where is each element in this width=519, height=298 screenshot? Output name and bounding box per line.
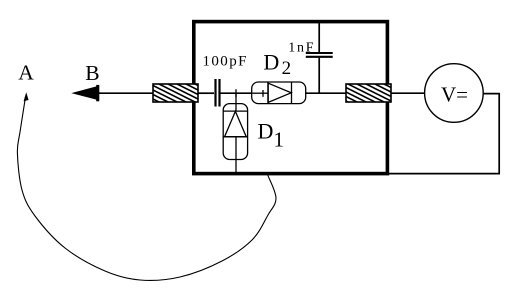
svg-text:B: B bbox=[85, 61, 99, 85]
diode D1 (vertical, packaged) bbox=[223, 104, 247, 160]
svg-text:A: A bbox=[18, 60, 34, 84]
svg-text:100pF: 100pF bbox=[203, 53, 248, 69]
svg-text:D: D bbox=[258, 119, 274, 144]
svg-text:1nF: 1nF bbox=[288, 40, 315, 55]
capacitor C1 100pF plates bbox=[216, 79, 220, 107]
leader arrowhead (points to A) bbox=[24, 92, 29, 101]
svg-text:1: 1 bbox=[274, 128, 285, 152]
capacitor C2 1nF plates bbox=[306, 53, 333, 57]
wire: D1 to box bottom bbox=[235, 137, 237, 173]
leader curve from A to box bbox=[17, 97, 276, 280]
junction tick node (D1 branch) bbox=[235, 89, 237, 97]
diode D2 (horizontal, packaged) bbox=[252, 82, 306, 104]
label D2 bbox=[263, 49, 291, 79]
voltage source V= circle bbox=[425, 64, 484, 123]
wire: 1nF branch up to box top bbox=[318, 23, 320, 93]
svg-text:V=: V= bbox=[441, 83, 468, 107]
wire: source return loop bbox=[389, 94, 499, 174]
feedthrough capacitor right (hatched) bbox=[346, 84, 391, 102]
feedthrough capacitor left (hatched) bbox=[153, 84, 198, 102]
polarity tick in D2 bbox=[262, 90, 264, 97]
svg-text:D: D bbox=[263, 49, 279, 74]
label D1 bbox=[258, 119, 285, 152]
wire: output lead to B bbox=[99, 92, 153, 94]
svg-text:2: 2 bbox=[282, 58, 292, 79]
wire: feedthrough to source bbox=[391, 92, 425, 94]
wire: C1 to D2 bbox=[220, 92, 252, 94]
wire: feedthrough to C1 bbox=[198, 92, 214, 94]
wire: junction down to D1 bbox=[235, 93, 237, 111]
arrowhead B bbox=[71, 85, 99, 101]
shielded box enclosure (node A) bbox=[194, 22, 388, 174]
wire: D2 to right feedthrough bbox=[306, 92, 346, 94]
